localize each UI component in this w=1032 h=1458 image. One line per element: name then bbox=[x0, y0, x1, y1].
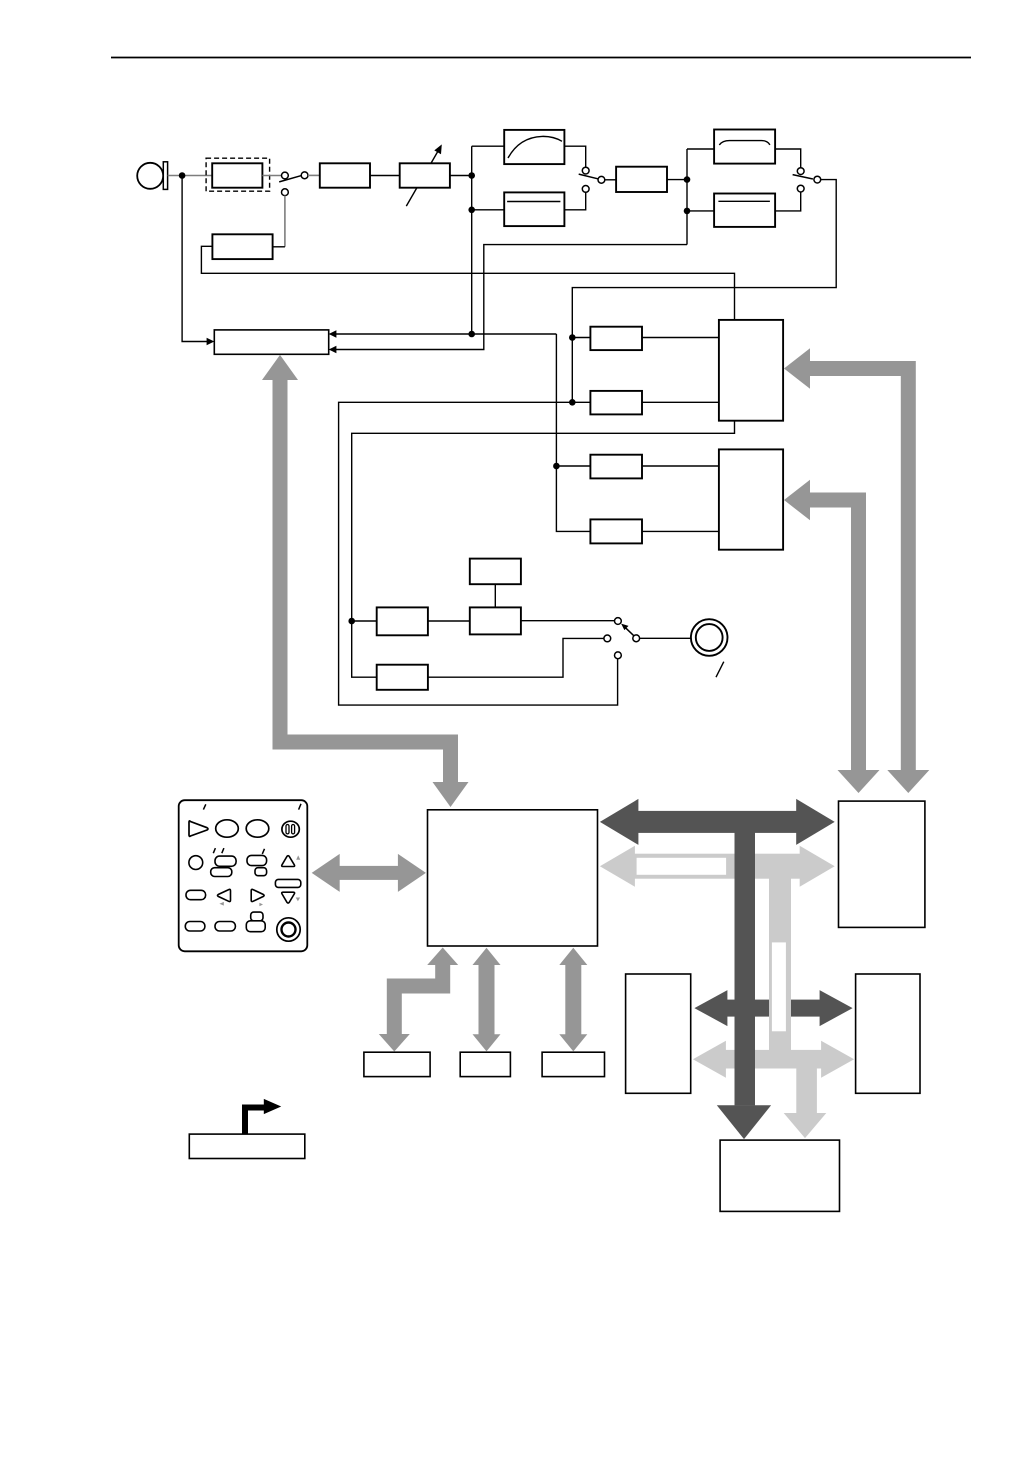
block: EQ2 flat-top curve box bbox=[714, 130, 775, 164]
wire S1 lower contact to echo amp (gray) bbox=[284, 196, 286, 247]
gray arrow: remote to controller (horizontal double) bbox=[312, 854, 426, 892]
speaker double circle bbox=[691, 619, 728, 656]
block: power box bottom left bbox=[189, 1134, 304, 1158]
light gray arrow: lower horizontal double bbox=[693, 1041, 854, 1078]
small gray left triangle bbox=[219, 902, 223, 906]
block: small box D bbox=[590, 519, 642, 543]
wire EQ1 to switch S2 bbox=[564, 146, 585, 167]
wire box C to system box 2 bbox=[642, 465, 719, 467]
block: lower box 2 bbox=[377, 665, 428, 690]
microphone bbox=[137, 162, 167, 190]
node B lower bbox=[684, 208, 691, 215]
remote button cluster 1 bbox=[211, 856, 236, 876]
switch S3 lever bbox=[793, 175, 813, 179]
node: mic line junction bbox=[179, 172, 186, 179]
switch S1 lever bbox=[279, 176, 301, 182]
block: volume (variable) bbox=[400, 144, 450, 206]
remote control body bbox=[179, 800, 308, 951]
switch S4 contact middle bbox=[604, 635, 611, 642]
dark arrow: display link (horizontal double) bbox=[694, 990, 852, 1026]
light gray arrow: vertical stem from horizontal link down bbox=[769, 879, 791, 1051]
wire mic junction down to rec/play selector with arrowhead bbox=[182, 176, 214, 346]
wire echo amp input elbow bbox=[273, 246, 285, 248]
block: small box C bbox=[590, 455, 642, 479]
wire echo amp out loop to record eq box top bbox=[201, 246, 734, 320]
remote button: rect row4 a bbox=[185, 922, 205, 932]
wire lower box1 to modulator bbox=[428, 620, 470, 622]
wire node E to lower box 1 bbox=[352, 620, 377, 622]
block: display box bbox=[626, 974, 691, 1093]
block: system controller bbox=[428, 810, 598, 946]
wire node D to small box C bbox=[556, 465, 590, 467]
switch S3 contact bottom bbox=[797, 185, 804, 192]
switch S4 common bbox=[633, 635, 640, 642]
block: key box 3 bbox=[542, 1052, 604, 1076]
node D bbox=[553, 463, 560, 470]
node A lower bbox=[468, 207, 475, 214]
wire mid amp to node B bbox=[667, 179, 687, 181]
switch S3 contact top bbox=[797, 168, 804, 175]
small gray right triangle bbox=[259, 903, 263, 907]
block: lower box 1 bbox=[377, 607, 428, 635]
wire node A vertical trunk bbox=[471, 146, 473, 334]
gray arrow: system box1 to deck block (elbow, double head) bbox=[784, 348, 929, 793]
light gray arrow: controller to deck (horizontal double) bbox=[600, 846, 835, 887]
wire line amp to volume bbox=[370, 175, 400, 177]
block: mid amp bbox=[616, 167, 667, 192]
wire modulator to switch S4 bbox=[521, 620, 614, 622]
wire playback line 1 into selector with arrowhead bbox=[329, 330, 557, 338]
node C upper bbox=[569, 334, 576, 341]
light gray arrow: down into mechanism box bbox=[784, 1069, 827, 1139]
remote button: small circle bbox=[189, 856, 203, 870]
remote button: up triangle bbox=[282, 856, 295, 867]
wire playback line 2 into selector with arrowhead bbox=[329, 245, 687, 354]
gray arrow: controller to key box 1 (elbow double) bbox=[379, 948, 458, 1052]
wire node C to small box A bbox=[572, 337, 590, 339]
wire box D to system box 2 bbox=[642, 530, 719, 532]
wire S4 common to speaker bbox=[640, 637, 691, 639]
small gray down triangle bbox=[296, 898, 300, 902]
remote button: play triangle bbox=[189, 821, 208, 836]
wire box A to system box 1 bbox=[642, 337, 719, 339]
small gray up triangle bbox=[296, 855, 300, 859]
remote button: level bar bbox=[275, 879, 300, 887]
remote ticks row2 bbox=[213, 848, 264, 854]
gray arrow: controller to key box 3 (vertical double) bbox=[559, 948, 587, 1052]
remote button: rect row4 b bbox=[215, 922, 235, 932]
wire node B to EQ2 bbox=[687, 148, 714, 150]
switch S2 contact bottom bbox=[582, 186, 589, 193]
block: EQ1 curve box bbox=[504, 130, 564, 164]
switch S2 common bbox=[598, 176, 605, 183]
switch S3 common bbox=[814, 176, 821, 183]
block: small box A bbox=[590, 327, 642, 350]
remote button: rounded rect row3 left bbox=[186, 890, 206, 899]
node C lower bbox=[569, 399, 576, 406]
block: deck control box bbox=[839, 801, 925, 927]
wire S3 common down-left trunk to node C bbox=[572, 180, 836, 403]
switch S4 contact bottom bbox=[615, 652, 622, 659]
remote button: left triangle bbox=[217, 889, 230, 901]
wire lower box2 to switch S4 middle contact bbox=[428, 638, 604, 677]
switch S2 contact top bbox=[582, 167, 589, 174]
block: echo amp bbox=[212, 234, 272, 259]
block: mic amp bbox=[212, 163, 262, 187]
wire EQ2 to switch S3 bbox=[775, 149, 801, 168]
wire flat1 to switch S2 bbox=[564, 192, 585, 210]
remote button: ellipse 2 bbox=[246, 820, 269, 837]
remote button: record rings bbox=[277, 918, 300, 941]
block: flat2 box bbox=[714, 194, 775, 227]
block: key box 1 bbox=[364, 1052, 430, 1076]
wire node C to small box B bbox=[572, 401, 590, 403]
remote button: stacked pair bbox=[246, 912, 265, 932]
block: flat1 box bbox=[504, 192, 564, 226]
wire switch to line amp (gray) bbox=[308, 174, 320, 176]
block: mechanism box bbox=[720, 1140, 839, 1211]
block: small box B bbox=[590, 391, 642, 415]
dark arrow: vertical stem down into mechanism box bbox=[717, 822, 771, 1139]
wire node B vertical trunk bbox=[686, 149, 688, 245]
remote button: right triangle bbox=[251, 889, 264, 901]
remote tick top-right bbox=[299, 804, 301, 810]
remote button: ellipse 1 bbox=[216, 820, 239, 837]
gray arrow: controller to key box 2 (vertical double) bbox=[473, 948, 501, 1052]
node B upper bbox=[684, 176, 691, 183]
block: osc top box bbox=[470, 559, 521, 585]
wire long loop from node C to bottom switch bbox=[339, 402, 618, 705]
speaker slash mark bbox=[716, 662, 724, 678]
remote button: down triangle bbox=[282, 892, 295, 903]
block: key box 2 bbox=[460, 1052, 510, 1076]
node A upper bbox=[468, 172, 475, 179]
wire mic amp to switch (gray) bbox=[262, 175, 281, 177]
wire volume to node A bbox=[450, 175, 472, 177]
wire mic to mic-amp (gray) bbox=[168, 175, 213, 177]
wire node A to flat1 bbox=[472, 209, 505, 211]
wire osc to modulator bbox=[494, 584, 496, 607]
block: line amp bbox=[320, 163, 370, 187]
block: system box 1 bbox=[719, 320, 783, 421]
remote tick top-left bbox=[203, 804, 205, 809]
switch S4 lever with arrow bbox=[621, 624, 634, 636]
block: rec/play selector bbox=[214, 330, 328, 354]
node on playback line 1 bbox=[468, 331, 475, 338]
switch S4 contact top bbox=[615, 618, 622, 625]
page top rule bbox=[111, 57, 971, 59]
switch S1 contact top bbox=[282, 172, 289, 179]
wire node A to EQ1 bbox=[472, 145, 505, 147]
wire box B to system box 1 bbox=[642, 401, 719, 403]
wire S2 common to mid amp bbox=[605, 179, 616, 181]
remote button cluster 2 bbox=[247, 855, 267, 875]
switch S1 common bbox=[301, 172, 308, 179]
dark arrow: controller to deck (horizontal double) bbox=[600, 799, 835, 845]
wire node B to flat2 bbox=[687, 210, 714, 212]
dashed enclosure around mic amp bbox=[206, 158, 270, 191]
switch S2 lever bbox=[579, 174, 598, 179]
block: modulator bbox=[470, 607, 521, 634]
node E bbox=[348, 618, 355, 625]
wire branch from playback line1 down to boxes C/D bbox=[556, 334, 590, 531]
gray arrow: selector to system controller (elbow, double head) bbox=[262, 355, 469, 807]
block: system box 2 bbox=[719, 449, 783, 549]
gray arrow: system box2 to deck block (elbow, double head) bbox=[784, 480, 880, 793]
switch S1 contact bottom bbox=[282, 189, 289, 196]
block: servo box bbox=[856, 974, 920, 1093]
wire system box1 bottom elbow down to lower section bbox=[352, 421, 735, 678]
black elbow arrow from power box bbox=[245, 1099, 281, 1134]
wire flat2 to switch S3 bbox=[775, 192, 801, 211]
remote button: pause bbox=[282, 821, 299, 837]
